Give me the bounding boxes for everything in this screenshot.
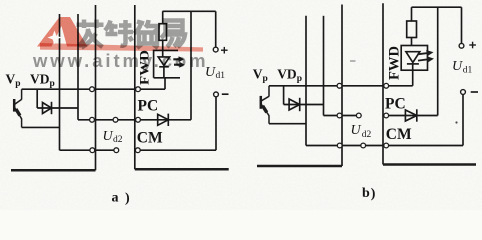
wire: PC line left segment (b) [324, 115, 358, 117]
svg-text:CM: CM [137, 129, 163, 146]
wire: control line 3 (b) long vertical [341, 5, 343, 167]
svg-text:U: U [452, 59, 463, 74]
diode VDp (a) [37, 89, 78, 114]
node circle x3/PC line (a) [90, 117, 95, 122]
wire: emitter line (a) [22, 126, 60, 128]
light arrows (a) [173, 56, 184, 67]
wire: PC diode top riser (a) [190, 11, 192, 120]
wire: PC line (a) [78, 119, 191, 121]
wire: PC diode top riser (b) [437, 7, 439, 115]
optocoupler LED (a) [158, 57, 169, 78]
wire: LED riser (a) [164, 78, 166, 89]
minus sign (a) [222, 93, 229, 95]
diode VDp (b) [284, 86, 324, 111]
wire: collector/FWD line (b) [269, 85, 413, 87]
watermark logo A [37, 17, 87, 47]
wire: bottom-left ground wire (a) [11, 169, 96, 172]
char ai [77, 20, 104, 48]
svg-text:CM: CM [386, 126, 412, 143]
svg-text:PC: PC [138, 98, 159, 115]
svg-text:d1: d1 [463, 66, 473, 76]
node circle PC line standalone (a) [113, 117, 118, 122]
optocoupler LED box (a) open right side [154, 50, 180, 77]
svg-text:U: U [103, 129, 114, 144]
wire: control line 2 (a) vertical to PC line [77, 14, 79, 120]
svg-text:U: U [351, 123, 362, 138]
wire: top wire (b) [412, 6, 462, 8]
watermark chinese characters [77, 20, 186, 49]
wire: collector/FWD line (a) [22, 88, 165, 90]
svg-text:www.aitmy.com: www.aitmy.com [32, 50, 208, 71]
resistor (a) in FWD branch [159, 11, 167, 57]
wire: LED riser (b) [412, 70, 414, 86]
plus sign (a) [221, 47, 228, 54]
svg-text:d2: d2 [362, 130, 372, 140]
terminal minus (a) [214, 92, 219, 97]
svg-text:d2: d2 [113, 135, 123, 145]
svg-text:d1: d1 [216, 71, 226, 81]
transistor Vp (a) [14, 89, 21, 127]
node circle x3/CM line (b) [337, 143, 342, 148]
node circle x3/collector (b) [337, 83, 342, 88]
svg-text:b: b [362, 186, 370, 201]
node circle x3/collector (a) [90, 87, 95, 92]
wire: driver bus (b) vertical [382, 3, 384, 164]
transistor Vp (b) [261, 86, 269, 124]
node circle x3/CM line (a) [90, 148, 95, 153]
node circle PC line standalone (b) [356, 113, 361, 118]
wire: control line 2 (b) vertical to PC line [323, 16, 325, 116]
wire: control line 1 (b) vertical to CM line [305, 16, 307, 146]
svg-text:): ) [371, 187, 376, 202]
wire: control line 1 (a) vertical to Ud2 line [59, 14, 61, 150]
node circle PC terminal (b) [384, 113, 389, 118]
node circle FWD terminal (b) [384, 83, 389, 88]
char yi [161, 21, 185, 48]
optocoupler LED box (b) [401, 46, 427, 71]
node circle PC terminal (a) [136, 117, 141, 122]
terminal minus (b) [461, 90, 466, 95]
wire: driver bus (a) vertical [134, 5, 136, 169]
wire: bottom-right ground wire (a) [135, 168, 229, 171]
wire: CM line (b) [306, 145, 463, 147]
node circle FWD terminal (a) [136, 87, 141, 92]
wire: plus terminal riser (b) [461, 7, 463, 43]
wire: CM line left segment (a) [60, 149, 117, 151]
wire: CM line right segment (a) to minus riser [135, 149, 216, 151]
scan mark [350, 60, 356, 62]
watermark red band [40, 43, 203, 52]
terminal plus (a) [213, 47, 218, 52]
watermark logo star [48, 31, 62, 45]
diode PC (a) [158, 114, 169, 126]
wire: emitter line (b) [269, 123, 306, 125]
svg-text:a: a [112, 191, 119, 206]
node circle CM terminal (a) [135, 148, 140, 153]
node circle x3/PC line (b) [337, 113, 342, 118]
wire: control line 3 (a) long vertical [95, 5, 97, 170]
char te [105, 20, 133, 46]
wire: minus terminal riser (a) [215, 97, 217, 151]
wire: top wire (a) [163, 10, 216, 12]
light arrows (b) [417, 50, 434, 63]
svg-text:FWD: FWD [387, 46, 403, 80]
diode PC (b) [405, 109, 416, 121]
node circle Ud2 right (b) [361, 143, 366, 148]
char mao [134, 20, 158, 48]
wire: bottom-right ground wire (b) [383, 163, 476, 166]
resistor (b) in FWD branch [407, 7, 417, 45]
svg-text:): ) [125, 191, 130, 206]
minus sign (b) [471, 91, 478, 93]
node circle CM terminal (b) [384, 143, 389, 148]
wire: minus terminal riser (b) [462, 94, 464, 145]
wire: plus terminal riser (a) [215, 11, 217, 47]
svg-text:PC: PC [385, 95, 406, 112]
optocoupler LED (b) [406, 52, 420, 70]
wire: PC line right segment (b) [383, 115, 438, 117]
wire: bottom-left ground wire (b) [257, 165, 342, 168]
terminal plus (b) [459, 43, 464, 48]
node circle Ud2 right (a) [114, 148, 119, 153]
scan speck [455, 121, 457, 123]
plus sign (b) [469, 42, 476, 49]
